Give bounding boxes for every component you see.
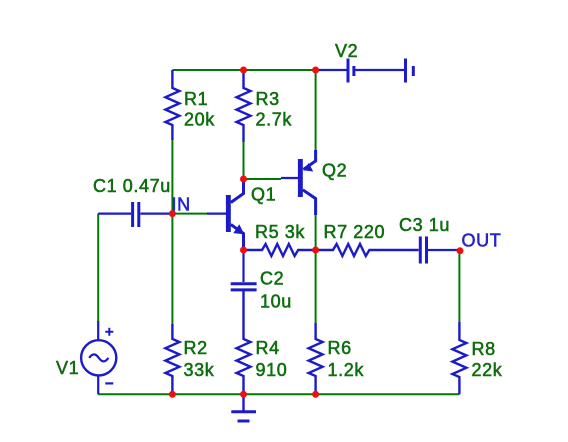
svg-text:OUT: OUT xyxy=(462,231,502,251)
wire R3 bottom to node xyxy=(243,142,245,179)
resistor R6 xyxy=(309,323,323,394)
svg-text:910: 910 xyxy=(256,360,288,380)
wire node to Q2 base xyxy=(244,178,282,180)
node dot rail R6 xyxy=(312,391,319,398)
svg-text:C3 1u: C3 1u xyxy=(399,215,450,235)
svg-text:R3: R3 xyxy=(256,89,280,109)
ground xyxy=(231,394,256,421)
battery V2 xyxy=(317,59,413,83)
wire V1 top column xyxy=(97,214,99,322)
svg-text:IN: IN xyxy=(172,195,191,215)
resistor R8 xyxy=(452,322,466,394)
svg-text:R5 3k: R5 3k xyxy=(255,222,305,242)
node dot rail R2 xyxy=(169,391,176,398)
node dot rail R4 xyxy=(240,391,247,398)
resistor R5 xyxy=(244,244,316,256)
svg-text:V1: V1 xyxy=(56,358,79,378)
svg-text:2.7k: 2.7k xyxy=(256,110,293,130)
resistor R3 xyxy=(237,70,251,142)
svg-text:R2: R2 xyxy=(184,338,208,358)
resistor R1 xyxy=(165,70,179,140)
node dot top R3 xyxy=(240,67,247,74)
resistor R7 xyxy=(316,244,419,256)
capacitor C1 xyxy=(98,202,172,227)
wire node to R6 xyxy=(315,250,317,323)
capacitor C3 xyxy=(420,237,459,264)
capacitor C2 xyxy=(231,250,257,290)
svg-text:C1 0.47u: C1 0.47u xyxy=(93,176,171,196)
svg-text:33k: 33k xyxy=(184,360,215,380)
svg-text:Q2: Q2 xyxy=(322,160,347,180)
node dot top V2 xyxy=(312,67,319,74)
wire V2 to Q2 emitter xyxy=(315,70,317,152)
wire IN to Q1 base xyxy=(172,213,208,215)
node dot OUT xyxy=(457,247,464,254)
wire top rail xyxy=(172,69,315,71)
wire bottom rail xyxy=(98,393,459,395)
svg-text:R8: R8 xyxy=(472,339,496,359)
svg-text:10u: 10u xyxy=(260,292,292,312)
node dot IN xyxy=(169,210,176,217)
source V1 xyxy=(81,321,116,394)
wire OUT to R8 xyxy=(458,251,460,322)
resistor R4 xyxy=(237,291,251,394)
svg-text:V2: V2 xyxy=(335,41,358,61)
svg-text:22k: 22k xyxy=(472,360,503,380)
svg-text:R7 220: R7 220 xyxy=(324,222,386,242)
transistor Q2 xyxy=(281,150,316,215)
svg-text:R6: R6 xyxy=(328,338,352,358)
node dot R5 R7 xyxy=(312,247,319,254)
node dot Q1 collector xyxy=(240,176,247,183)
svg-text:1.2k: 1.2k xyxy=(328,360,365,380)
svg-text:C2: C2 xyxy=(260,269,284,289)
transistor Q1 xyxy=(207,179,244,250)
svg-text:R1: R1 xyxy=(184,89,208,109)
svg-text:Q1: Q1 xyxy=(251,184,276,204)
svg-text:20k: 20k xyxy=(184,110,215,130)
wire Q2 collector to node xyxy=(315,214,317,250)
wire left column R1-R2 xyxy=(171,140,173,324)
node dot Q1 emitter xyxy=(240,247,247,254)
svg-text:R4: R4 xyxy=(256,338,280,358)
resistor R2 xyxy=(165,324,179,394)
